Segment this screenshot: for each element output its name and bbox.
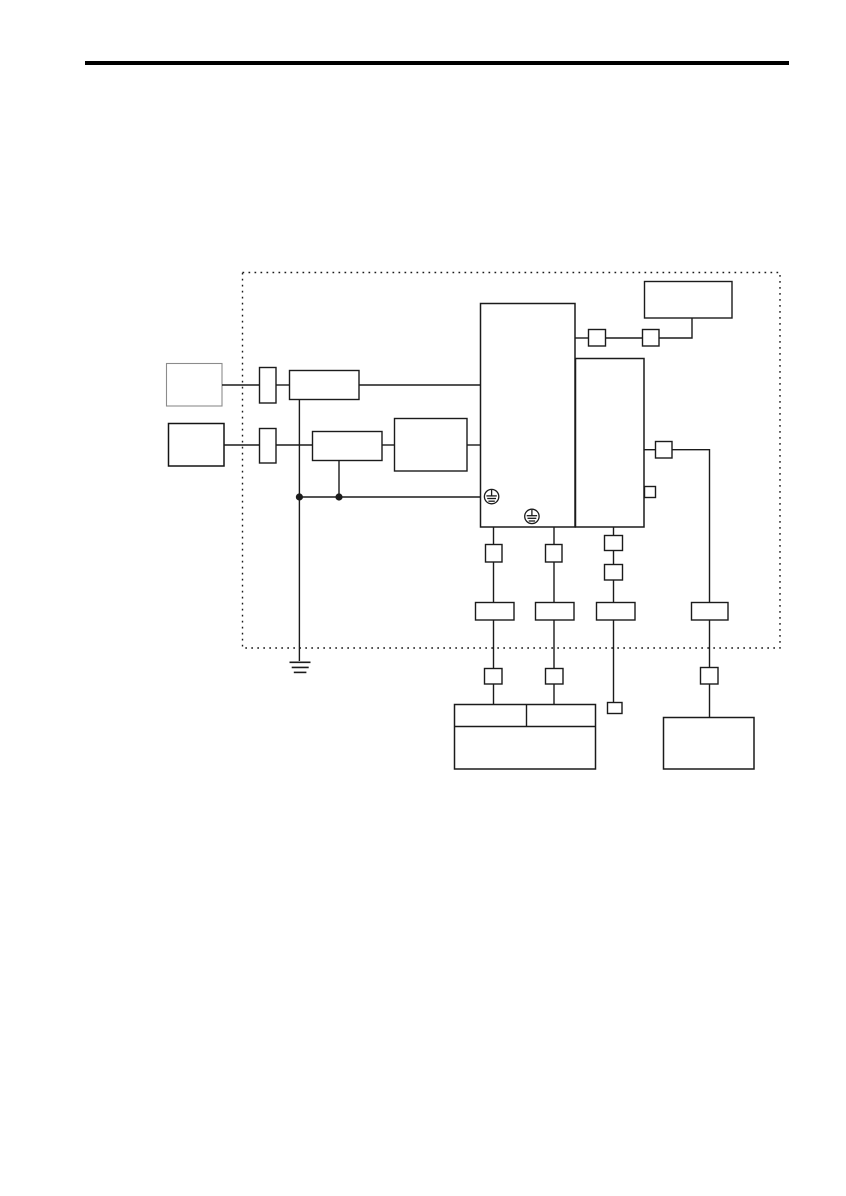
box TR (top right unit)	[645, 282, 733, 319]
PE terminal symbol 2 (inside B1)	[525, 509, 539, 523]
ferrite F4	[692, 603, 729, 621]
PE terminal symbol 1 (inside B1)	[484, 489, 498, 503]
wire: V1 to M1	[276, 384, 289, 386]
wire: B2 to connector R1	[644, 449, 655, 451]
junction dot 1	[296, 493, 303, 500]
wire: V2 to M2	[276, 444, 312, 446]
wire: earth bus to B1	[299, 496, 480, 498]
dotted enclosure boundary	[243, 273, 781, 649]
connector R1	[656, 442, 673, 459]
connector C4	[701, 668, 719, 685]
box M1 (filter, upper)	[290, 371, 360, 400]
wire: M2 to M3	[382, 444, 394, 446]
connector C3b	[605, 565, 623, 581]
wire: B1 bottom column 2	[553, 527, 555, 544]
wire: L1 to V1	[222, 384, 259, 386]
wire: C1b to bottom box	[493, 684, 495, 704]
top rule	[85, 61, 789, 65]
wire: C3b to F3	[613, 580, 615, 602]
wire: M2 earth drop	[338, 461, 340, 497]
wire: M1 to main unit B1	[359, 384, 480, 386]
bottom left box (host device)	[455, 705, 596, 770]
box M3 (converter)	[395, 419, 468, 472]
connector A	[589, 330, 606, 347]
wire: F3 down to plug	[613, 620, 615, 702]
terminal block V2	[260, 429, 277, 464]
connector C1a	[486, 545, 503, 563]
connector C3a	[605, 536, 623, 551]
bottom right box (peripheral)	[664, 718, 755, 770]
host device divider vertical	[526, 705, 528, 727]
connector stub R2 on B2 edge	[645, 487, 656, 498]
wire: B1 bottom column 1	[493, 527, 495, 544]
host device divider horizontal	[455, 726, 596, 728]
plug end C3c	[608, 703, 623, 714]
connector C2b	[546, 669, 564, 685]
junction dot 2	[335, 493, 342, 500]
wire: C4 to peripheral box	[709, 684, 711, 717]
terminal block V1	[260, 368, 277, 404]
wire: earth bus down to ground	[298, 497, 300, 661]
connector C1b	[485, 669, 503, 685]
wire: M1 earth drop	[298, 399, 300, 497]
unit B2	[576, 359, 645, 528]
wire: C2b to bottom box	[553, 684, 555, 704]
wire: C3a to C3b	[613, 551, 615, 565]
wire: F4 down to C4	[709, 620, 711, 667]
wire: L2 to V2	[224, 444, 259, 446]
main unit B1	[481, 304, 576, 528]
ferrite F1	[476, 603, 515, 621]
wire: C1a to F1	[493, 562, 495, 602]
wire: R1 right and down to F4	[672, 450, 710, 602]
connector B	[643, 330, 660, 347]
wire: F1 down to C1b	[493, 620, 495, 668]
wire: connector A to connector B	[606, 337, 643, 339]
wire: F2 down to C2b	[553, 620, 555, 668]
wire: M3 to main unit B1	[467, 444, 480, 446]
box L2 (external source, bottom left)	[169, 424, 225, 467]
box M2 (filter, lower)	[313, 432, 383, 461]
wire: connector B to TR	[659, 318, 692, 338]
wire: B1 to connector A	[575, 337, 588, 339]
connector C2a	[546, 545, 563, 563]
ferrite F3	[597, 603, 636, 621]
ferrite F2	[536, 603, 575, 621]
box L1 (external source, top left)	[167, 364, 223, 407]
ground symbol	[290, 662, 311, 672]
wire: B2 bottom column 3	[613, 527, 615, 535]
wire: C2a to F2	[553, 562, 555, 602]
